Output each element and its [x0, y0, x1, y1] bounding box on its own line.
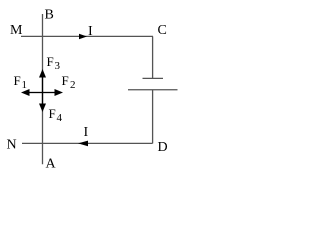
svg-text:N: N — [7, 138, 17, 153]
svg-text:M: M — [10, 23, 23, 38]
svg-text:F: F — [62, 73, 69, 88]
svg-text:B: B — [45, 8, 54, 23]
svg-text:I: I — [84, 125, 89, 140]
svg-text:3: 3 — [55, 60, 61, 72]
svg-text:2: 2 — [70, 79, 76, 91]
svg-text:4: 4 — [57, 112, 63, 124]
svg-text:I: I — [88, 24, 93, 39]
svg-text:A: A — [46, 156, 57, 171]
svg-text:F: F — [47, 54, 54, 69]
svg-text:C: C — [158, 23, 167, 38]
svg-text:D: D — [158, 140, 168, 155]
svg-text:F: F — [14, 73, 21, 88]
svg-text:1: 1 — [22, 79, 28, 91]
svg-text:F: F — [49, 106, 56, 121]
